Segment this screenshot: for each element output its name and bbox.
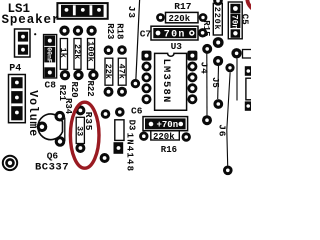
svg-text:R23: R23 [105,23,115,39]
svg-text:J4: J4 [199,62,210,75]
svg-text:R22: R22 [85,81,95,97]
svg-text:R35: R35 [83,112,94,132]
svg-text:70n: 70n [164,30,186,41]
svg-text:R16: R16 [161,145,177,155]
svg-text:P4: P4 [9,64,21,75]
svg-text:C5: C5 [239,14,249,25]
svg-text:220k: 220k [153,132,175,142]
svg-text:00nF: 00nF [45,47,52,63]
svg-text:R20: R20 [69,82,79,98]
svg-text:C6: C6 [131,106,143,117]
svg-text:22k: 22k [72,44,82,59]
svg-text:LM358N: LM358N [160,59,172,104]
svg-text:U3: U3 [171,41,183,52]
svg-text:R18: R18 [115,23,125,39]
svg-text:1k: 1k [58,48,68,58]
svg-text:220k: 220k [169,14,191,24]
svg-text:C7: C7 [140,29,152,40]
svg-text:+70n: +70n [157,120,179,130]
svg-text:1N4148: 1N4148 [125,133,135,173]
svg-text:D3: D3 [127,120,137,131]
svg-text:47k: 47k [117,64,127,79]
svg-text:J3: J3 [126,6,137,19]
svg-text:R34: R34 [63,98,73,115]
svg-text:100k: 100k [85,41,95,61]
svg-text:70n: 70n [230,15,239,30]
svg-text:Q6: Q6 [47,150,59,161]
svg-text:220k: 220k [212,7,222,31]
svg-text:C8: C8 [45,80,57,91]
svg-text:J6: J6 [216,124,227,137]
svg-text:J5: J5 [210,77,220,88]
svg-text:Speaker: Speaker [2,13,61,27]
svg-text:Volume: Volume [26,90,39,137]
svg-text:BC337: BC337 [35,161,69,173]
svg-text:33: 33 [74,126,84,136]
svg-text:R17: R17 [174,1,191,12]
svg-text:22k: 22k [103,64,113,79]
